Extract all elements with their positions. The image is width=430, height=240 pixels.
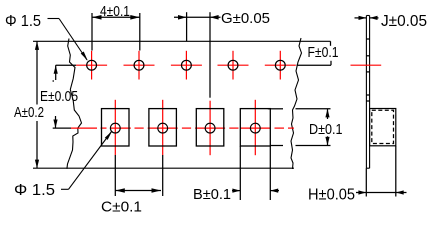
side view strip ticks <box>366 39 369 101</box>
sprocket hole 5 crosshair <box>265 51 296 80</box>
pocket centerline (red dash) <box>71 127 294 129</box>
dimension E±0.05 <box>53 65 77 128</box>
dimension 4±0.1 <box>92 13 140 51</box>
leader phi top <box>48 19 88 61</box>
pocket 2 <box>149 109 177 146</box>
side view strip <box>366 16 369 169</box>
sprocket hole 2 <box>134 60 144 70</box>
pocket 2 vertical centerline <box>162 100 164 155</box>
dimension A±0.2 <box>36 41 38 168</box>
dimension G±0.05 <box>174 12 221 98</box>
tape top edge <box>33 40 331 42</box>
pocket 2 hole <box>158 123 168 133</box>
sprocket hole 1 <box>87 60 97 70</box>
pocket 3 vertical centerline <box>209 101 211 156</box>
svg-text:4±0.1: 4±0.1 <box>100 3 130 20</box>
svg-text:B±0.1: B±0.1 <box>193 186 231 203</box>
side view sprocket centerline <box>351 64 382 66</box>
pocket 3 hole <box>205 123 215 133</box>
pocket 1 vertical centerline <box>114 100 116 155</box>
svg-text:H±0.05: H±0.05 <box>308 187 355 204</box>
dimension B±0.1 <box>232 146 279 200</box>
dimension F±0.1 <box>297 41 332 65</box>
dimension C±0.1 <box>115 155 162 196</box>
sprocket hole 4 <box>228 60 238 70</box>
sprocket hole 2 crosshair <box>124 51 155 80</box>
sprocket hole 4 crosshair <box>218 51 249 80</box>
pocket 4 vertical centerline <box>254 100 256 155</box>
svg-text:G±0.05: G±0.05 <box>221 10 270 27</box>
pocket 1 hole <box>110 123 120 133</box>
svg-text:A±0.2: A±0.2 <box>14 104 44 121</box>
tape bottom edge <box>33 167 294 169</box>
side view pocket hidden line <box>372 110 394 143</box>
svg-text:J±0.05: J±0.05 <box>381 13 427 30</box>
dimension H±0.05 <box>356 146 407 197</box>
svg-text:E±0.05: E±0.05 <box>40 88 78 105</box>
dimension D±0.1 <box>268 109 331 146</box>
svg-text:D±0.1: D±0.1 <box>309 121 343 138</box>
pocket 3 <box>196 109 224 146</box>
sprocket hole 3 <box>182 60 192 70</box>
svg-text:Φ 1.5: Φ 1.5 <box>5 13 41 30</box>
left break line (wavy tape edge) <box>67 39 82 169</box>
pocket 4 <box>240 109 270 146</box>
svg-text:Φ 1.5: Φ 1.5 <box>14 182 55 199</box>
svg-text:F±0.1: F±0.1 <box>308 44 339 61</box>
leader phi bottom <box>61 131 112 189</box>
side view pocket bulge <box>370 109 396 146</box>
pocket 4 hole <box>250 123 260 133</box>
svg-text:C±0.1: C±0.1 <box>101 199 142 216</box>
sprocket hole 3 crosshair <box>171 51 202 80</box>
sprocket hole 5 <box>275 60 285 70</box>
dimension J±0.05 <box>355 17 379 19</box>
pocket 1 <box>102 109 130 146</box>
right break line (wavy tape edge) <box>291 38 302 169</box>
sprocket hole 1 crosshair <box>76 51 107 80</box>
